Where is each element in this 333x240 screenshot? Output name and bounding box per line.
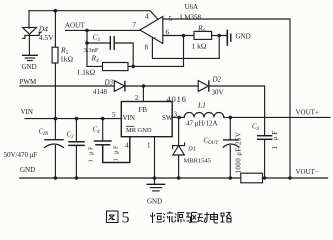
node: C3 on rail (263, 176, 267, 180)
svg-text:7: 7 (133, 21, 137, 29)
label D4 value (38, 25, 54, 43)
wire: overline MR (126, 125, 134, 127)
svg-text:U6A: U6A (185, 3, 199, 11)
svg-text:−: − (153, 34, 157, 42)
svg-text:D3: D3 (104, 79, 114, 87)
label C2 (67, 131, 95, 163)
svg-text:1: 1 (147, 142, 151, 150)
svg-text:1 kΩ: 1 kΩ (192, 42, 207, 51)
label R6 (192, 24, 207, 51)
svg-text:PWM: PWM (20, 78, 38, 86)
label C4 (93, 126, 120, 162)
wire: AOUT down to R4/C5 (86, 30, 88, 66)
label D1 (184, 146, 211, 165)
svg-text:5: 5 (112, 111, 116, 119)
op-amp U6A LM358 (140, 17, 163, 44)
diode D2 30V (198, 81, 209, 92)
svg-text:GND: GND (22, 63, 37, 71)
wire: VIN line (25, 118, 121, 120)
node: C4 tap (101, 117, 105, 121)
wire: top reference rail (29, 11, 159, 29)
svg-text:4016: 4016 (167, 94, 187, 104)
node: C2 on rail (75, 176, 79, 180)
node: sense line tap (288, 176, 292, 180)
node: C5 tap (85, 41, 89, 45)
svg-text:GND: GND (20, 166, 35, 174)
svg-text:D1: D1 (187, 146, 196, 153)
capacitor C5 (87, 37, 133, 67)
ground terminal after R6 (227, 30, 231, 45)
label CIN (4, 127, 49, 159)
char 动 (198, 212, 210, 223)
wire: FB pin 2 (142, 86, 144, 102)
svg-text:COUT: COUT (204, 137, 220, 147)
svg-text:1 μF: 1 μF (271, 129, 279, 150)
svg-text:R6: R6 (197, 24, 206, 35)
svg-text:1000 μF/25V: 1000 μF/25V (235, 132, 243, 174)
svg-text:1kΩ: 1kΩ (60, 55, 74, 64)
wire: AOUT to op-amp output (66, 29, 141, 31)
svg-text:MR: MR (126, 127, 137, 134)
svg-text:VIN: VIN (21, 108, 33, 116)
ground symbol under IC (147, 178, 164, 191)
label IC 4016 (112, 94, 187, 150)
svg-text:VOUT−: VOUT− (296, 168, 319, 176)
char 恒 (151, 213, 163, 224)
resistor R7 current sense (241, 173, 263, 183)
zener diode D4 (23, 27, 42, 54)
svg-text:1 μF: 1 μF (113, 144, 120, 162)
wire: pin6 inverting input (163, 35, 194, 37)
wire: bottom ground rail (20, 177, 241, 179)
wire: IC pin1 GND to rail (154, 137, 156, 178)
char 图 (107, 211, 119, 223)
char 源 (175, 213, 185, 223)
node: FB pin tap (142, 84, 146, 88)
node: rail junction to R5 (54, 9, 58, 13)
capacitor CIN electrolytic (45, 119, 64, 178)
node: R6 right junction (217, 34, 221, 38)
diode D1 MBR1545 schottky (173, 117, 185, 178)
svg-text:MBR1545: MBR1545 (184, 158, 211, 165)
wire: D2 cathode right and down to C3 (209, 86, 265, 136)
svg-text:LM358: LM358 (180, 14, 202, 22)
svg-text:FB: FB (139, 106, 148, 114)
svg-text:AOUT: AOUT (65, 22, 85, 30)
char 流 (163, 212, 174, 223)
svg-text:5: 5 (122, 210, 130, 227)
svg-text:VIN: VIN (123, 114, 135, 122)
capacitor C2 (69, 119, 84, 178)
node: D1 on rail (177, 176, 181, 180)
resistor R5 (52, 11, 58, 119)
node: CIN tap (54, 117, 58, 121)
char 电 (211, 212, 219, 223)
label R4 (77, 54, 100, 77)
node: D1 tap (177, 116, 181, 120)
wire: D3 cathode to D2 anode (FB line) (125, 85, 198, 87)
svg-text:C4: C4 (93, 126, 101, 136)
diode D3 4148 (114, 81, 125, 92)
node: COUT on rail (229, 176, 233, 180)
capacitor C3 (258, 136, 272, 178)
svg-text:47 μH/12A: 47 μH/12A (186, 120, 218, 128)
node: pin1 on rail (153, 176, 157, 180)
IC U1 4016 buck regulator (121, 102, 172, 137)
node: C2 tap (75, 117, 79, 121)
svg-text:50V/470 μF: 50V/470 μF (4, 151, 38, 159)
svg-text:4: 4 (125, 142, 129, 150)
label C3 (252, 123, 279, 150)
label R5 (60, 46, 74, 64)
wire: PWM line (20, 85, 114, 87)
node: CIN on rail (54, 176, 58, 180)
node: COUT tap (229, 116, 233, 120)
svg-text:C5: C5 (93, 33, 101, 44)
svg-text:D2: D2 (212, 76, 222, 84)
svg-text:GND: GND (236, 33, 251, 41)
wire: vertical from pin6 node down (183, 36, 185, 67)
capacitor C4 (95, 119, 130, 163)
wire: rail right of sense resistor to VOUT- (263, 177, 328, 179)
wire: SW output (172, 116, 184, 118)
node: AOUT feedback tap (85, 29, 89, 33)
char 驱 (186, 213, 197, 223)
node: R4/C5 right junction (131, 65, 135, 69)
svg-text:L1: L1 (197, 101, 206, 110)
svg-text:4148: 4148 (93, 88, 108, 96)
svg-text:8: 8 (145, 44, 149, 52)
svg-text:CIN: CIN (39, 127, 49, 137)
label COUT (204, 132, 243, 174)
char 路 (221, 213, 232, 223)
svg-text:4.5V: 4.5V (39, 33, 54, 42)
inductor L1 (184, 112, 224, 117)
label D2 (212, 76, 224, 97)
wire: output line to VOUT+ (224, 116, 330, 118)
wire: pin5 non-inverting input to sense line (163, 19, 290, 178)
wire: feedback line to inverting input (133, 65, 183, 67)
label op-amp pins and name (133, 3, 202, 52)
label D3 (93, 79, 114, 97)
svg-text:1.1kΩ: 1.1kΩ (77, 68, 96, 77)
ground symbol under D4 (23, 55, 38, 60)
resistor R6 (194, 31, 227, 39)
svg-text:4: 4 (145, 13, 149, 21)
svg-text:C3: C3 (252, 123, 260, 133)
capacitor COUT electrolytic (223, 117, 239, 178)
wire: pin8 path (152, 36, 219, 59)
title: 图5 恒流源驱动电路 (107, 210, 232, 227)
svg-text:VOUT+: VOUT+ (296, 109, 319, 117)
svg-text:GND: GND (147, 198, 162, 206)
svg-text:GND: GND (138, 127, 152, 134)
svg-text:SW: SW (162, 114, 173, 122)
svg-text:30V: 30V (212, 89, 224, 97)
node: pin6 junction (182, 34, 186, 38)
svg-text:R4: R4 (91, 54, 100, 65)
svg-text:C2: C2 (67, 131, 75, 141)
svg-text:1 μF: 1 μF (88, 145, 95, 163)
label L1 (186, 101, 218, 128)
resistor R4 (87, 63, 133, 71)
label C5 (84, 33, 101, 54)
